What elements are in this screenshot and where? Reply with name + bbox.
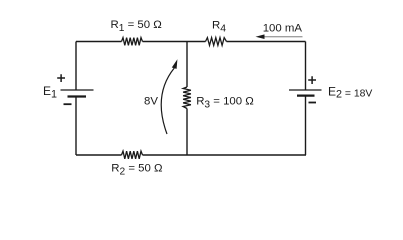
wire middle branch upper <box>186 42 188 88</box>
svg-text:R4: R4 <box>212 19 226 34</box>
wire middle branch lower <box>186 109 188 156</box>
label 8V <box>144 95 158 107</box>
resistor R3 (vertical) <box>183 87 191 109</box>
wire right side lower <box>305 96 307 155</box>
wire left side upper (to E1) <box>75 42 77 91</box>
svg-text:E2 = 18V: E2 = 18V <box>328 84 372 100</box>
battery E1 <box>61 90 94 97</box>
wire top-left segment <box>76 41 122 43</box>
wire top-right segment <box>227 41 306 43</box>
svg-text:R1 = 50 Ω: R1 = 50 Ω <box>111 19 163 34</box>
wire bottom-left segment <box>76 154 122 156</box>
svg-text:R2 = 50 Ω: R2 = 50 Ω <box>111 163 163 178</box>
plus sign E2 <box>308 76 316 84</box>
battery E2 <box>289 90 322 96</box>
wire top-middle segment <box>143 41 206 43</box>
label E1 <box>43 84 57 100</box>
current arrow (points left) <box>256 34 303 39</box>
label R4 <box>212 19 226 34</box>
wire right side upper (to E2) <box>305 42 307 91</box>
wire left side lower <box>75 97 77 156</box>
minus sign E2 <box>309 102 317 104</box>
minus sign E1 <box>64 103 72 105</box>
resistor R2 <box>122 151 143 159</box>
label R3 = 100 ohm <box>196 95 254 110</box>
svg-text:100 mA: 100 mA <box>263 23 303 35</box>
resistor R4 <box>206 38 227 46</box>
plus sign E1 <box>57 74 65 82</box>
svg-text:R3 = 100 Ω: R3 = 100 Ω <box>196 95 254 110</box>
wire bottom-right segment <box>143 154 307 156</box>
svg-text:8V: 8V <box>144 95 158 107</box>
value label R1 = 50 ohm <box>111 19 163 34</box>
label E2 = 18V <box>328 84 372 100</box>
voltage arrow 8V (curved) <box>161 59 177 134</box>
svg-text:E1: E1 <box>43 84 57 100</box>
value label R2 = 50 ohm <box>111 163 163 178</box>
resistor R1 <box>122 38 143 46</box>
current label 100 mA <box>263 23 303 35</box>
